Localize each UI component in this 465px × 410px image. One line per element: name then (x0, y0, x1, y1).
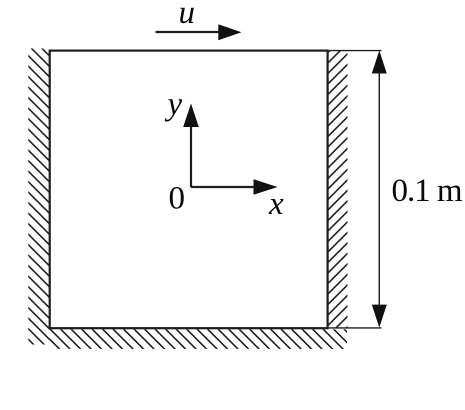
svg-text:x: x (268, 186, 284, 222)
dimension line (378, 72, 380, 306)
dimension arrowhead top (372, 51, 387, 74)
bottom extension line (329, 327, 382, 329)
svg-text:u: u (179, 0, 196, 31)
y-axis line (190, 125, 192, 187)
cavity box (50, 51, 328, 329)
right wall hatching (328, 51, 348, 329)
x-axis arrowhead (254, 179, 278, 195)
x-axis line (191, 186, 256, 188)
svg-text:0: 0 (169, 180, 186, 216)
bottom wall hatching (50, 329, 347, 349)
top extension line (329, 50, 382, 52)
svg-text:y: y (165, 87, 183, 123)
left wall hatching (28, 49, 50, 345)
y-axis arrowhead (183, 104, 199, 128)
lid velocity arrow line (156, 31, 222, 33)
svg-text:0.1 m: 0.1 m (392, 173, 463, 209)
dimension arrowhead bottom (372, 305, 387, 328)
lid velocity arrowhead (218, 24, 241, 40)
